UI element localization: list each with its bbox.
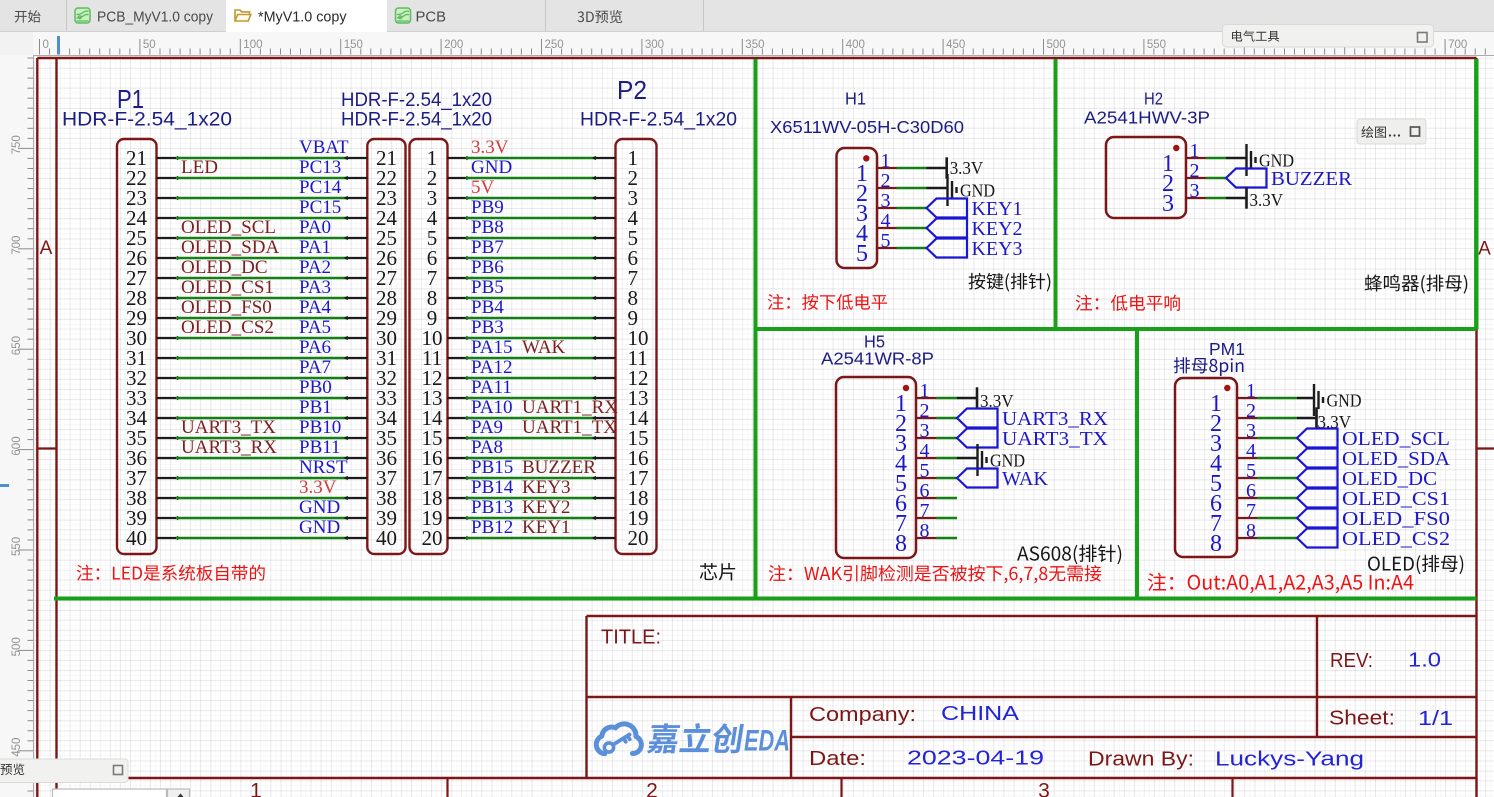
svg-text:P2: P2 <box>617 75 647 105</box>
svg-text:5: 5 <box>1246 460 1256 482</box>
svg-text:20: 20 <box>628 526 649 550</box>
svg-text:PA1: PA1 <box>299 237 331 258</box>
tab label 3D预览 <box>577 10 622 23</box>
vertical ruler cursor marker <box>0 484 9 487</box>
svg-text:KEY3: KEY3 <box>522 477 571 498</box>
P2 pin 15 stub <box>596 437 616 439</box>
pin 7 stub <box>1237 517 1257 519</box>
middle header 2 pin 15 stub <box>448 437 466 439</box>
svg-text:OLED_DC: OLED_DC <box>181 257 268 278</box>
svg-text:550: 550 <box>11 537 23 556</box>
net flag WAK <box>957 468 1049 490</box>
P1 pin 33 stub <box>157 397 177 399</box>
svg-text:CHINA: CHINA <box>941 703 1020 725</box>
svg-text:100: 100 <box>243 39 262 51</box>
wire P1 pin 28 to header pin 28 <box>176 297 348 300</box>
svg-text:PA15: PA15 <box>471 337 513 358</box>
P2 pin 13 stub <box>596 397 616 399</box>
wire header pin 12 to P2 pin 12 <box>466 377 597 380</box>
wire H1 pin 5 <box>897 247 927 250</box>
wire header pin 9 to P2 pin 9 <box>466 317 597 320</box>
P1 pin 22 stub <box>157 177 177 179</box>
net flag OLED_SCL <box>1297 428 1450 450</box>
wire header pin 5 to P2 pin 5 <box>466 237 597 240</box>
P2 pin 2 stub <box>596 177 616 179</box>
wire P1 pin 23 to header pin 23 <box>176 197 348 200</box>
P2 pin 3 stub <box>596 197 616 199</box>
svg-text:5V: 5V <box>471 177 495 198</box>
wire P1 pin 26 to header pin 26 <box>176 257 348 260</box>
wire H2 pin 1 to GND <box>1226 157 1247 159</box>
wire header pin 11 to P2 pin 11 <box>466 357 597 360</box>
svg-text:A: A <box>1478 239 1491 260</box>
pin 6 stub <box>1237 497 1257 499</box>
svg-text:PB10: PB10 <box>299 417 341 438</box>
green section divider vertical right edge <box>1474 59 1478 329</box>
wire H5 pin 5 <box>936 477 957 480</box>
middle header 2 pin 17 stub <box>448 477 466 479</box>
P2 pin 11 stub <box>596 357 616 359</box>
svg-text:REV:: REV: <box>1330 650 1373 672</box>
net flag KEY1 <box>927 198 1023 220</box>
wire header pin 20 to P2 pin 20 <box>466 537 597 540</box>
svg-text:HDR-F-2.54_1x20: HDR-F-2.54_1x20 <box>580 109 737 131</box>
svg-text:*MyV1.0 copy: *MyV1.0 copy <box>258 10 347 26</box>
middle header 1 pin 35 stub <box>348 437 367 439</box>
svg-text:UART3_TX: UART3_TX <box>1002 428 1109 450</box>
svg-text:PB3: PB3 <box>471 317 504 338</box>
wire H5 pin 1 to 3.3V <box>957 397 977 399</box>
P2 pin 14 stub <box>596 417 616 419</box>
svg-text:PA3: PA3 <box>299 277 331 298</box>
middle header 1 pin 28 stub <box>348 297 367 299</box>
middle header 2 body (pins 1-20) <box>410 139 448 554</box>
svg-text:PA11: PA11 <box>471 377 512 398</box>
wire header pin 1 to P2 pin 1 <box>466 157 597 160</box>
wire H5 pin 3 <box>936 437 957 440</box>
wire header pin 17 to P2 pin 17 <box>466 477 597 480</box>
svg-text:550: 550 <box>1147 39 1166 51</box>
middle header 2 pin 11 stub <box>448 357 466 359</box>
H2 pin-1 marker dot <box>1173 145 1179 151</box>
svg-text:PA12: PA12 <box>471 357 513 378</box>
middle header 2 pin 2 stub <box>448 177 466 179</box>
power 3.3V at H2 pin 3 <box>1247 187 1284 210</box>
svg-text:OLED_FS0: OLED_FS0 <box>181 297 272 318</box>
svg-text:250: 250 <box>545 39 564 51</box>
svg-text:PB13: PB13 <box>471 497 513 518</box>
svg-text:Company:: Company: <box>809 704 916 726</box>
svg-text:0: 0 <box>43 39 49 51</box>
P2 pin 1 stub <box>596 157 616 159</box>
H1 pin-1 marker dot <box>863 155 869 161</box>
wire header pin 2 to P2 pin 2 <box>466 177 597 180</box>
svg-text:2: 2 <box>1246 400 1256 422</box>
middle header 2 pin 10 stub <box>448 337 466 339</box>
pin 1 stub <box>1237 397 1257 399</box>
wire H5 pin 1 <box>936 397 957 400</box>
svg-text:OLED_SCL: OLED_SCL <box>181 217 276 238</box>
middle header 2 pin 16 stub <box>448 457 466 459</box>
svg-text:20: 20 <box>422 526 443 550</box>
svg-text:PB12: PB12 <box>471 517 513 538</box>
wire P1 pin 30 to header pin 30 <box>176 337 348 340</box>
svg-text:PA7: PA7 <box>299 357 331 378</box>
svg-text:PC13: PC13 <box>299 157 341 178</box>
svg-text:PC14: PC14 <box>299 177 342 198</box>
P1 pin 38 stub <box>157 497 177 499</box>
svg-text:6: 6 <box>920 480 930 502</box>
svg-text:1: 1 <box>1190 140 1200 162</box>
note 注：低电平响 <box>1076 295 1180 311</box>
title block logo cell divider <box>790 697 792 778</box>
pin 5 stub <box>1237 477 1257 479</box>
ground at PM1 pin 1 <box>1314 384 1362 416</box>
wire PM1 pin 7 <box>1257 517 1297 520</box>
horizontal ruler cursor marker <box>57 36 60 55</box>
ground at H1 pin 2 <box>948 174 996 206</box>
title block divider below TITLE row <box>587 696 1477 698</box>
PM1 pin-1 marker dot <box>1224 385 1230 391</box>
wire H5 pin 2 <box>936 417 957 420</box>
wire PM1 pin 2 <box>1257 417 1297 420</box>
svg-text:PA9: PA9 <box>471 417 503 438</box>
title block REV column divider <box>1316 616 1318 737</box>
svg-text:UART1_RX: UART1_RX <box>522 397 618 418</box>
middle header 2 pin 4 stub <box>448 217 466 219</box>
pin 1 stub <box>1186 157 1206 159</box>
middle header 2 pin 8 stub <box>448 297 466 299</box>
section label AS608(排针) <box>1017 544 1121 564</box>
svg-text:3.3V: 3.3V <box>1250 190 1284 210</box>
svg-text:OLED_CS1: OLED_CS1 <box>181 277 274 298</box>
green section divider vertical x755 <box>754 59 758 599</box>
svg-text:PM1: PM1 <box>1209 339 1245 359</box>
svg-text:WAK: WAK <box>522 337 566 358</box>
svg-text:OLED_CS2: OLED_CS2 <box>1342 528 1450 550</box>
svg-text:3: 3 <box>1246 420 1256 442</box>
pin 4 stub <box>1237 457 1257 459</box>
wire H5 pin 8 <box>936 537 957 540</box>
green section divider horizontal bottom <box>54 597 1477 601</box>
svg-text:PB7: PB7 <box>471 237 504 258</box>
middle header 2 pin 12 stub <box>448 377 466 379</box>
svg-text:X6511WV-05H-C30D60: X6511WV-05H-C30D60 <box>770 117 964 137</box>
power 3.3V at PM1 pin 2 <box>1317 407 1352 432</box>
pin 1 stub <box>877 167 897 169</box>
power 3.3V at H1 pin 1 <box>947 157 984 178</box>
svg-text:OLED_FS0: OLED_FS0 <box>1342 508 1450 530</box>
net flag OLED_CS2 <box>1297 528 1450 550</box>
svg-text:1/1: 1/1 <box>1418 708 1453 730</box>
wire header pin 18 to P2 pin 18 <box>466 497 597 500</box>
panel 绘图 <box>1357 119 1426 144</box>
JLCEDA logo text <box>646 723 744 753</box>
svg-text:2: 2 <box>920 400 930 422</box>
pin 3 stub <box>1237 437 1257 439</box>
pin 4 stub <box>916 457 936 459</box>
svg-text:8: 8 <box>920 520 930 542</box>
P1 pin 28 stub <box>157 297 177 299</box>
svg-text:VBAT: VBAT <box>299 137 349 158</box>
svg-text:7: 7 <box>920 500 930 522</box>
wire header pin 15 to P2 pin 15 <box>466 437 597 440</box>
svg-text:A2541HWV-3P: A2541HWV-3P <box>1084 108 1210 128</box>
P2 pin 7 stub <box>596 277 616 279</box>
middle header 1 pin 26 stub <box>348 257 367 259</box>
middle header 1 pin 21 stub <box>348 157 367 159</box>
middle header 1 pin 39 stub <box>348 517 367 519</box>
svg-text:4: 4 <box>920 440 930 462</box>
svg-text:3: 3 <box>881 190 891 212</box>
sheet frame outer left border <box>36 58 38 797</box>
wire H2 pin 2 <box>1206 177 1226 180</box>
svg-text:EDA: EDA <box>744 725 790 758</box>
section label 芯片 <box>700 563 735 581</box>
svg-text:650: 650 <box>11 336 23 355</box>
P1 pin 36 stub <box>157 457 177 459</box>
svg-text:1: 1 <box>1246 380 1256 402</box>
svg-text:PA4: PA4 <box>299 297 332 318</box>
svg-text:PB1: PB1 <box>299 397 332 418</box>
wire PM1 pin 5 <box>1257 477 1297 480</box>
svg-text:3.3V: 3.3V <box>299 477 337 498</box>
svg-text:40: 40 <box>126 526 147 550</box>
middle header 1 pin 38 stub <box>348 497 367 499</box>
svg-text:PB14: PB14 <box>471 477 514 498</box>
svg-text:WAK: WAK <box>1002 468 1049 490</box>
svg-text:UART3_TX: UART3_TX <box>181 417 276 438</box>
wire header pin 7 to P2 pin 7 <box>466 277 597 280</box>
middle header 2 pin 14 stub <box>448 417 466 419</box>
P2 pin 9 stub <box>596 317 616 319</box>
svg-text:PB5: PB5 <box>471 277 504 298</box>
svg-text:500: 500 <box>1047 39 1066 51</box>
svg-text:PA2: PA2 <box>299 257 331 278</box>
pin 5 stub <box>916 477 936 479</box>
middle header 1 pin 36 stub <box>348 457 367 459</box>
JLCEDA logo cloud icon <box>596 724 641 754</box>
pin 3 stub <box>1186 197 1206 199</box>
P1 pin 23 stub <box>157 197 177 199</box>
middle header 2 pin 9 stub <box>448 317 466 319</box>
svg-text:KEY1: KEY1 <box>972 198 1023 220</box>
wire P1 pin 39 to header pin 39 <box>176 517 348 520</box>
svg-text:700: 700 <box>1448 39 1467 51</box>
P1 pin 29 stub <box>157 317 177 319</box>
svg-text:450: 450 <box>11 738 23 757</box>
svg-text:PB11: PB11 <box>299 437 341 458</box>
middle header 1 pin 29 stub <box>348 317 367 319</box>
middle header 1 pin 40 stub <box>348 537 367 539</box>
wire P1 pin 24 to header pin 24 <box>176 217 348 220</box>
svg-text:A: A <box>40 238 53 259</box>
middle header 1 pin 27 stub <box>348 277 367 279</box>
green section divider vertical x1055 <box>1054 59 1058 329</box>
svg-text:OLED_CS1: OLED_CS1 <box>1342 488 1450 510</box>
svg-text:6: 6 <box>1246 480 1256 502</box>
wire header pin 13 to P2 pin 13 <box>466 397 597 400</box>
wire H5 pin 7 <box>936 517 957 520</box>
ground at H5 pin 4 <box>978 444 1026 476</box>
P1 pin 26 stub <box>157 257 177 259</box>
wire P1 pin 31 to header pin 31 <box>176 357 348 360</box>
title block divider below Company row <box>791 736 1477 738</box>
svg-text:PA5: PA5 <box>299 317 331 338</box>
svg-text:GND: GND <box>1327 390 1362 410</box>
pin 6 stub <box>916 497 936 499</box>
P2 pin 10 stub <box>596 337 616 339</box>
net flag UART3_TX <box>957 428 1109 450</box>
net flag OLED_CS1 <box>1297 488 1450 510</box>
wire header pin 8 to P2 pin 8 <box>466 297 597 300</box>
svg-text:2: 2 <box>1190 160 1200 182</box>
P1 pin 25 stub <box>157 237 177 239</box>
svg-text:KEY3: KEY3 <box>972 238 1023 260</box>
svg-text:50: 50 <box>143 39 156 51</box>
svg-text:PB15: PB15 <box>471 457 513 478</box>
middle header 2 pin 6 stub <box>448 257 466 259</box>
svg-text:OLED_SCL: OLED_SCL <box>1342 428 1450 450</box>
wire P1 pin 21 to header pin 21 <box>176 157 348 160</box>
wire H1 pin 2 to GND <box>927 187 948 189</box>
svg-text:PB4: PB4 <box>471 297 504 318</box>
vertical ruler ticks <box>18 58 33 791</box>
bottom margin column tick 3 <box>1231 778 1233 797</box>
svg-text:1.0: 1.0 <box>1408 650 1441 672</box>
svg-text:OLED_CS2: OLED_CS2 <box>181 317 274 338</box>
bottom-left input widget <box>53 789 190 797</box>
wire header pin 3 to P2 pin 3 <box>466 197 597 200</box>
sheet frame bottom border <box>37 777 1476 779</box>
middle header 2 pin 20 stub <box>448 537 466 539</box>
middle header 1 pin 25 stub <box>348 237 367 239</box>
section label 蜂鸣器(排母) <box>1365 274 1468 293</box>
P2 pin 6 stub <box>596 257 616 259</box>
wire H2 pin 3 <box>1206 197 1226 200</box>
bottom margin column tick 2 <box>840 778 842 797</box>
svg-text:UART1_TX: UART1_TX <box>522 417 617 438</box>
svg-text:OLED_SDA: OLED_SDA <box>181 237 279 258</box>
svg-text:HDR-F-2.54_1x20: HDR-F-2.54_1x20 <box>62 109 232 131</box>
P1 pin 39 stub <box>157 517 177 519</box>
middle header 1 pin 33 stub <box>348 397 367 399</box>
tab icon PCB_MyV1.0 <box>75 8 90 23</box>
tab icon PCB <box>396 8 411 23</box>
svg-text:7: 7 <box>1246 500 1256 522</box>
svg-text:PB0: PB0 <box>299 377 332 398</box>
svg-text:HDR-F-2.54_1x20: HDR-F-2.54_1x20 <box>341 90 492 111</box>
svg-text:40: 40 <box>376 526 397 550</box>
pin 5 stub <box>877 247 897 249</box>
svg-text:H2: H2 <box>1144 89 1163 109</box>
svg-text:PCB: PCB <box>416 10 447 26</box>
svg-text:GND: GND <box>299 497 340 518</box>
svg-text:450: 450 <box>946 39 965 51</box>
P1 pin 27 stub <box>157 277 177 279</box>
pin 1 stub <box>916 397 936 399</box>
svg-text:1: 1 <box>881 150 891 172</box>
net flag OLED_SDA <box>1297 448 1451 470</box>
svg-text:OLED_SDA: OLED_SDA <box>1342 448 1451 470</box>
svg-text:GND: GND <box>471 157 512 178</box>
wire P1 pin 33 to header pin 33 <box>176 397 348 400</box>
wire P1 pin 22 to header pin 22 <box>176 177 348 180</box>
middle header 2 pin 13 stub <box>448 397 466 399</box>
P2 pin 19 stub <box>596 517 616 519</box>
wire H5 pin 4 to GND <box>957 457 978 459</box>
svg-text:500: 500 <box>11 637 23 656</box>
middle header 2 pin 7 stub <box>448 277 466 279</box>
wire P1 pin 32 to header pin 32 <box>176 377 348 380</box>
wire PM1 pin 8 <box>1257 537 1297 540</box>
wire H2 pin 1 <box>1206 157 1226 160</box>
svg-text:3.3V: 3.3V <box>471 137 509 158</box>
P1 pin 37 stub <box>157 477 177 479</box>
svg-text:UART3_RX: UART3_RX <box>181 437 277 458</box>
middle header 1 pin 24 stub <box>348 217 367 219</box>
net flag OLED_DC <box>1297 468 1437 490</box>
svg-text:BUZZER: BUZZER <box>1271 168 1353 190</box>
P2 pin 12 stub <box>596 377 616 379</box>
P2 pin 18 stub <box>596 497 616 499</box>
net flag KEY3 <box>927 238 1023 260</box>
middle header 1 pin 31 stub <box>348 357 367 359</box>
pin 8 stub <box>1237 537 1257 539</box>
wire H1 pin 3 <box>897 207 927 210</box>
svg-text:PA8: PA8 <box>471 437 503 458</box>
svg-text:2023-04-19: 2023-04-19 <box>907 748 1044 770</box>
wire P1 pin 38 to header pin 38 <box>176 497 348 500</box>
wire H5 pin 6 <box>936 497 957 500</box>
tab label 开始 <box>15 10 41 22</box>
svg-text:KEY2: KEY2 <box>972 218 1023 240</box>
wire PM1 pin 4 <box>1257 457 1297 460</box>
middle header 1 pin 32 stub <box>348 377 367 379</box>
svg-text:NRST: NRST <box>299 457 348 478</box>
svg-text:600: 600 <box>11 436 23 455</box>
tab icon active schematic folder <box>235 10 251 21</box>
svg-text:KEY2: KEY2 <box>522 497 571 518</box>
wire P1 pin 35 to header pin 35 <box>176 437 348 440</box>
middle header 1 pin 30 stub <box>348 337 367 339</box>
svg-text:3: 3 <box>1038 780 1050 797</box>
svg-text:OLED_DC: OLED_DC <box>1342 468 1437 490</box>
panel 预览 <box>0 759 128 783</box>
wire H1 pin 1 <box>897 167 927 170</box>
connector PM1 body <box>1175 378 1237 557</box>
green section divider vertical x1137 <box>1135 329 1139 599</box>
pin 7 stub <box>916 517 936 519</box>
net flag KEY2 <box>927 218 1023 240</box>
svg-text:5: 5 <box>920 460 930 482</box>
P1 pin 34 stub <box>157 417 177 419</box>
horizontal ruler labels <box>43 39 1468 51</box>
wire P1 pin 34 to header pin 34 <box>176 417 348 420</box>
pin 2 stub <box>916 417 936 419</box>
svg-text:BUZZER: BUZZER <box>522 457 596 478</box>
green section divider horizontal y329 <box>756 327 1477 331</box>
middle header 1 pin 37 stub <box>348 477 367 479</box>
wire H1 pin 2 <box>897 187 927 190</box>
svg-text:750: 750 <box>11 135 23 154</box>
wire PM1 pin 6 <box>1257 497 1297 500</box>
connector H2 body <box>1106 137 1186 218</box>
net flag OLED_FS0 <box>1297 508 1450 530</box>
wire PM1 pin 1 <box>1257 397 1297 400</box>
middle header 2 pin 1 stub <box>448 157 466 159</box>
middle header 2 pin 19 stub <box>448 517 466 519</box>
